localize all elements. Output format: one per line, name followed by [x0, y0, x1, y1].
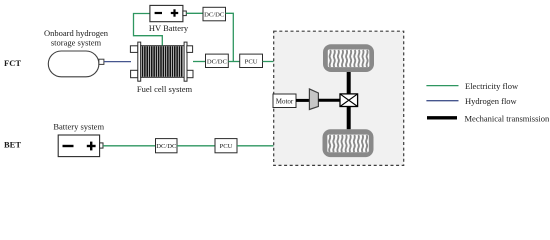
svg-text:FCT: FCT	[4, 58, 21, 68]
hydrogen tank	[48, 51, 104, 77]
left tabs	[130, 46, 137, 53]
svg-text:Hydrogen flow: Hydrogen flow	[465, 96, 518, 106]
svg-text:Battery system: Battery system	[53, 121, 104, 131]
wire battery to DC/DC (green)	[103, 145, 156, 147]
DC/DC converter (BET)	[156, 139, 178, 153]
svg-text:PCU: PCU	[220, 143, 233, 150]
svg-text:Motor: Motor	[276, 98, 294, 106]
legend electricity flow line	[426, 85, 458, 87]
svg-text:Mechanical transmission: Mechanical transmission	[465, 114, 550, 124]
differential	[340, 94, 358, 107]
svg-text:DC/DC: DC/DC	[156, 143, 177, 150]
motor	[273, 94, 296, 108]
wire HV battery to fuel cell stack (green)	[134, 14, 163, 46]
wire DC/DC to PCU (green, BET)	[177, 145, 215, 147]
svg-text:Onboard hydrogen: Onboard hydrogen	[44, 28, 109, 38]
shaft motor to gearbox	[296, 99, 310, 102]
svg-text:storage system: storage system	[51, 38, 102, 48]
legend hydrogen flow line	[426, 100, 458, 102]
wire fuel cell to DC/DC (green)	[193, 61, 206, 63]
svg-text:PCU: PCU	[245, 59, 258, 66]
shaft gearbox to differential	[318, 99, 340, 102]
gearbox	[309, 89, 318, 110]
wire HV battery to DC/DC (green)	[186, 12, 203, 14]
fuel cell stack	[130, 42, 193, 81]
legend mechanical transmission line	[427, 116, 457, 119]
svg-text:HV Battery: HV Battery	[149, 23, 189, 33]
stack body	[141, 46, 184, 78]
axle upper	[347, 72, 351, 94]
svg-text:DC/DC: DC/DC	[204, 11, 225, 18]
axle lower	[347, 107, 351, 130]
svg-text:Fuel cell system: Fuel cell system	[137, 84, 193, 94]
wheel (top)	[323, 44, 374, 72]
wire hydrogen tank to fuel cell (blue)	[104, 61, 131, 63]
svg-text:DC/DC: DC/DC	[207, 59, 228, 66]
HV battery	[150, 5, 186, 21]
DC/DC converter (top)	[203, 7, 226, 20]
wire PCU to drivetrain (green)	[263, 61, 274, 63]
svg-text:Electricity flow: Electricity flow	[465, 81, 519, 91]
right tabs	[187, 46, 193, 53]
PCU (FCT)	[240, 54, 263, 67]
drivetrain dashed enclosure	[274, 31, 404, 165]
svg-text:BET: BET	[4, 140, 21, 150]
right end plate	[184, 42, 187, 81]
DC/DC converter (FCT main)	[206, 54, 229, 67]
battery (BET)	[58, 135, 103, 157]
wire PCU to drivetrain (green, BET)	[237, 145, 274, 147]
PCU (BET)	[215, 139, 237, 153]
left end plate	[138, 42, 141, 81]
wire DC/DC to PCU (green)	[228, 61, 239, 63]
wheel (bottom)	[323, 129, 374, 157]
wire DC/DC top to PCU node (green)	[226, 13, 234, 61]
